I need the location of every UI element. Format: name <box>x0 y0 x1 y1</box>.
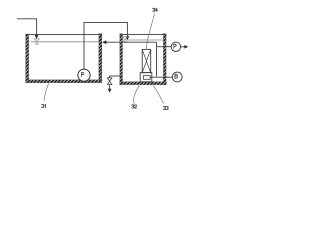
leader 33 <box>153 85 163 104</box>
inlet pipe horizontal <box>17 18 37 20</box>
drain pipe from tank 32 <box>110 75 121 77</box>
label 33 <box>163 106 165 109</box>
discharge arrow <box>126 36 130 40</box>
label 31 <box>42 104 44 107</box>
pump P1 circle <box>78 69 90 81</box>
tank 31 bottom wall <box>26 80 102 83</box>
blower B circle <box>172 72 182 82</box>
drain arrow <box>108 89 112 93</box>
tank 31 right wall <box>99 34 102 83</box>
pump 33 inner rect <box>143 76 150 80</box>
tank 31 level symbol <box>34 39 39 45</box>
tank 31 left wall <box>26 34 29 83</box>
pump P1 suction/discharge vertical pipe <box>83 22 85 69</box>
return arrow into tank 31 <box>102 40 106 44</box>
tank 32 bottom wall <box>120 82 166 85</box>
filter 34 X diagonals <box>142 49 151 72</box>
discharge pipe horizontal <box>84 21 128 23</box>
riser pipe <box>156 42 158 76</box>
pump P2 circle <box>171 42 180 51</box>
leader 34 <box>147 14 155 50</box>
return pipe (tank32 to tank31) <box>105 41 157 43</box>
tank 32 right wall <box>163 34 166 85</box>
label 32 <box>132 105 134 108</box>
pipe to B <box>150 76 172 78</box>
pump unit 33 box <box>140 73 152 82</box>
tank 31 top rim <box>26 34 102 36</box>
drain pipe below valve <box>109 85 111 90</box>
tank 31 liquid level line <box>31 41 99 43</box>
pump P2 outlet arrow <box>181 46 185 48</box>
inlet arrow <box>35 35 39 39</box>
leader 31 <box>44 83 49 100</box>
tank 32 liquid level line <box>123 39 164 41</box>
drain valve <box>107 78 112 85</box>
drain pipe elbow down <box>109 76 111 78</box>
inlet pipe vertical <box>36 18 38 35</box>
tank 32 left wall <box>120 34 123 85</box>
label 34 <box>153 8 155 11</box>
leader 32 <box>134 85 140 103</box>
discharge pipe down into tank 32 <box>126 22 128 37</box>
filter 34 box <box>142 49 151 72</box>
tank 32 level symbol <box>123 37 127 43</box>
pipe to pump P2 <box>157 46 172 48</box>
tank 32 top rim <box>120 34 166 36</box>
